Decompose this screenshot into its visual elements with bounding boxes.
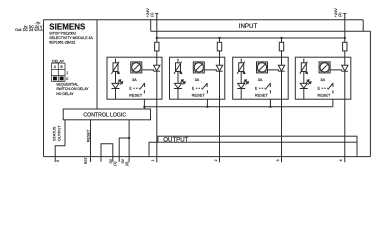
wire: 0V (2) bridge <box>119 138 129 157</box>
wire: knob to diode channel 1 <box>142 70 154 71</box>
fuse F3 <box>279 42 283 51</box>
electronic breaker channel 2 <box>177 59 179 63</box>
svg-text:S: S <box>56 159 60 162</box>
switch position marks (filled) <box>53 77 57 81</box>
current setting knob channel 2 <box>193 62 204 73</box>
junction on control rail channel 3 <box>269 106 271 108</box>
junction on control rail channel 1 <box>143 106 145 108</box>
junction 0V rail <box>128 137 130 139</box>
svg-text:1: 1 <box>151 159 155 161</box>
wire: fuse to diode channel 2 <box>219 51 221 65</box>
svg-text:SITOP PSE200U: SITOP PSE200U <box>49 32 76 36</box>
terminal +24V (2): input terminal stub <box>343 13 346 15</box>
terminal +24V (1): input terminal stub <box>155 13 158 15</box>
terminal 0V (1) <box>101 157 113 162</box>
svg-text:INPUT: INPUT <box>239 23 258 30</box>
junction on rail, branch 4 <box>344 37 346 39</box>
svg-text:RESET: RESET <box>129 92 143 97</box>
svg-text:RESET: RESET <box>255 92 269 97</box>
svg-text:2: 2 <box>214 159 218 161</box>
wire: input bar right step <box>362 20 364 31</box>
wire: fuse to diode channel 3 <box>281 51 283 65</box>
block U1: CONTROL LOGIC <box>63 109 150 120</box>
wire: breaker to LED channel 2 <box>177 72 179 84</box>
wire: control/status rail <box>144 106 333 108</box>
wire: diode to output bar channel 4 <box>344 71 346 157</box>
wire: breaker to LED channel 4 <box>303 72 305 84</box>
fuse F4 <box>343 42 347 51</box>
svg-text:0: 0 <box>66 77 68 81</box>
svg-text:E: E <box>192 86 195 90</box>
junction on rail, branch 1 <box>156 37 158 39</box>
wire: reset to control rail channel 4 <box>332 90 334 107</box>
terminal stub output 1 <box>156 157 158 163</box>
svg-text:4: 4 <box>339 159 343 161</box>
channel 2 enclosure box <box>170 57 225 99</box>
svg-text:+24V: +24V <box>334 8 338 17</box>
wire: left panel partition <box>96 20 98 109</box>
svg-text:(1): (1) <box>150 13 154 17</box>
electronic breaker channel 4 <box>303 59 305 63</box>
svg-text:E: E <box>129 86 132 90</box>
wire: knob to diode channel 3 <box>268 70 279 71</box>
wire: +24V terminal feed channel 4 <box>344 13 346 42</box>
junction on control rail channel 2 <box>206 106 208 108</box>
diode V1 (decoupling) <box>154 65 160 71</box>
svg-text:3A: 3A <box>258 78 263 82</box>
channel 3 enclosure box <box>233 57 289 99</box>
svg-text:3: 3 <box>276 159 280 161</box>
svg-text:3A: 3A <box>320 78 325 82</box>
svg-text:Out: DC 24 V/3 A: Out: DC 24 V/3 A <box>15 28 43 32</box>
channel 4 enclosure box <box>295 57 351 99</box>
diode V4 (decoupling) <box>342 65 348 71</box>
junction on rail, branch 2 <box>218 37 220 39</box>
svg-text:A: A <box>54 65 57 69</box>
wire: diode to output bar channel 1 <box>156 71 158 157</box>
current setting knob channel 1 <box>131 62 142 73</box>
junction on rail, branch 3 <box>280 37 282 39</box>
wire: fuse to diode channel 1 <box>156 51 158 65</box>
svg-text:SELECTIVITY MODULE 3A: SELECTIVITY MODULE 3A <box>49 36 93 40</box>
svg-text:NO DELAY: NO DELAY <box>56 92 74 96</box>
channel 1 enclosure box <box>107 57 162 99</box>
svg-text:STATUS: STATUS <box>53 126 57 141</box>
wire: module bottom edge <box>44 156 371 158</box>
wire: input bar bottom edge <box>151 30 371 32</box>
wire: input bar left step <box>150 20 152 31</box>
diode V2 (decoupling) <box>216 65 222 71</box>
svg-text:CONTROL LOGIC: CONTROL LOGIC <box>83 112 126 118</box>
wire: 0V (1) bridge <box>101 144 113 157</box>
wire: module top edge / input bar top <box>44 19 364 21</box>
wire: diode to output bar channel 2 <box>219 71 221 157</box>
wire: reset to control rail channel 1 <box>143 90 145 107</box>
svg-text:3A: 3A <box>132 78 137 82</box>
svg-text:6EP1961-2BA31: 6EP1961-2BA31 <box>49 41 75 45</box>
wire: diode to output bar channel 3 <box>281 71 283 157</box>
wire: +24V distribution rail <box>157 37 345 39</box>
wire: branch 3 from rail <box>281 38 283 42</box>
diode V3 (decoupling) <box>278 65 284 71</box>
LED indicator channel 2 <box>175 83 182 88</box>
wire: knob to diode channel 2 <box>204 70 216 71</box>
wire: +24V terminal feed channel 1 <box>156 13 158 42</box>
svg-text:3A: 3A <box>195 78 200 82</box>
svg-text:RESET: RESET <box>317 92 331 97</box>
fuse F2 <box>217 42 221 51</box>
svg-text:OUTPUT: OUTPUT <box>163 137 188 144</box>
terminal stub output 4 <box>344 157 346 163</box>
current setting knob channel 4 <box>319 62 330 73</box>
svg-text:+24V: +24V <box>146 8 150 17</box>
svg-text:RESET: RESET <box>87 129 91 142</box>
wire: output 1 bridge terminal <box>149 142 158 156</box>
current setting knob channel 3 <box>257 62 268 73</box>
wire: module right border <box>369 31 371 156</box>
fuse F1 <box>155 42 159 51</box>
node OUTPUT bus <box>158 136 357 142</box>
svg-text:SIEMENS: SIEMENS <box>49 22 86 31</box>
electronic breaker channel 3 <box>240 59 242 63</box>
terminal stub output 2 <box>219 157 221 163</box>
wire: breaker to LED channel 1 <box>115 72 117 84</box>
svg-text:E: E <box>255 86 258 90</box>
wire: branch 2 from rail <box>219 38 221 42</box>
wire: breaker to LED channel 3 <box>240 72 242 84</box>
wire: 0V (2) riser from control logic <box>128 120 130 157</box>
svg-text:SEQUENTIAL: SEQUENTIAL <box>56 83 78 87</box>
svg-text:1: 1 <box>66 71 68 75</box>
svg-text:E: E <box>318 86 321 90</box>
wire: knob to diode channel 4 <box>330 70 342 71</box>
svg-text:(1): (1) <box>113 162 117 166</box>
svg-text:SWITCH-ON DELAY: SWITCH-ON DELAY <box>56 87 89 91</box>
terminal 0V (2) <box>119 157 129 162</box>
svg-text:(2): (2) <box>338 13 342 17</box>
wire: reset to control rail channel 2 <box>206 90 208 107</box>
wire: reset to control rail channel 3 <box>269 90 271 107</box>
terminal stub output 3 <box>281 157 283 163</box>
LED indicator channel 3 <box>238 83 245 88</box>
svg-text:OUTPUT: OUTPUT <box>58 125 62 141</box>
wire: status output S <box>55 120 65 162</box>
wire: reset input RST <box>90 120 92 162</box>
wire: module left border <box>43 20 45 157</box>
svg-text:B: B <box>61 65 63 69</box>
electronic breaker channel 1 <box>115 59 117 63</box>
svg-text:(2): (2) <box>125 162 129 166</box>
LED indicator channel 1 <box>112 83 119 88</box>
LED indicator channel 4 <box>300 83 307 88</box>
svg-text:RST: RST <box>84 157 88 164</box>
wire: control rail to control logic <box>143 107 145 109</box>
wire: fuse to diode channel 4 <box>344 51 346 65</box>
svg-text:RESET: RESET <box>192 92 206 97</box>
